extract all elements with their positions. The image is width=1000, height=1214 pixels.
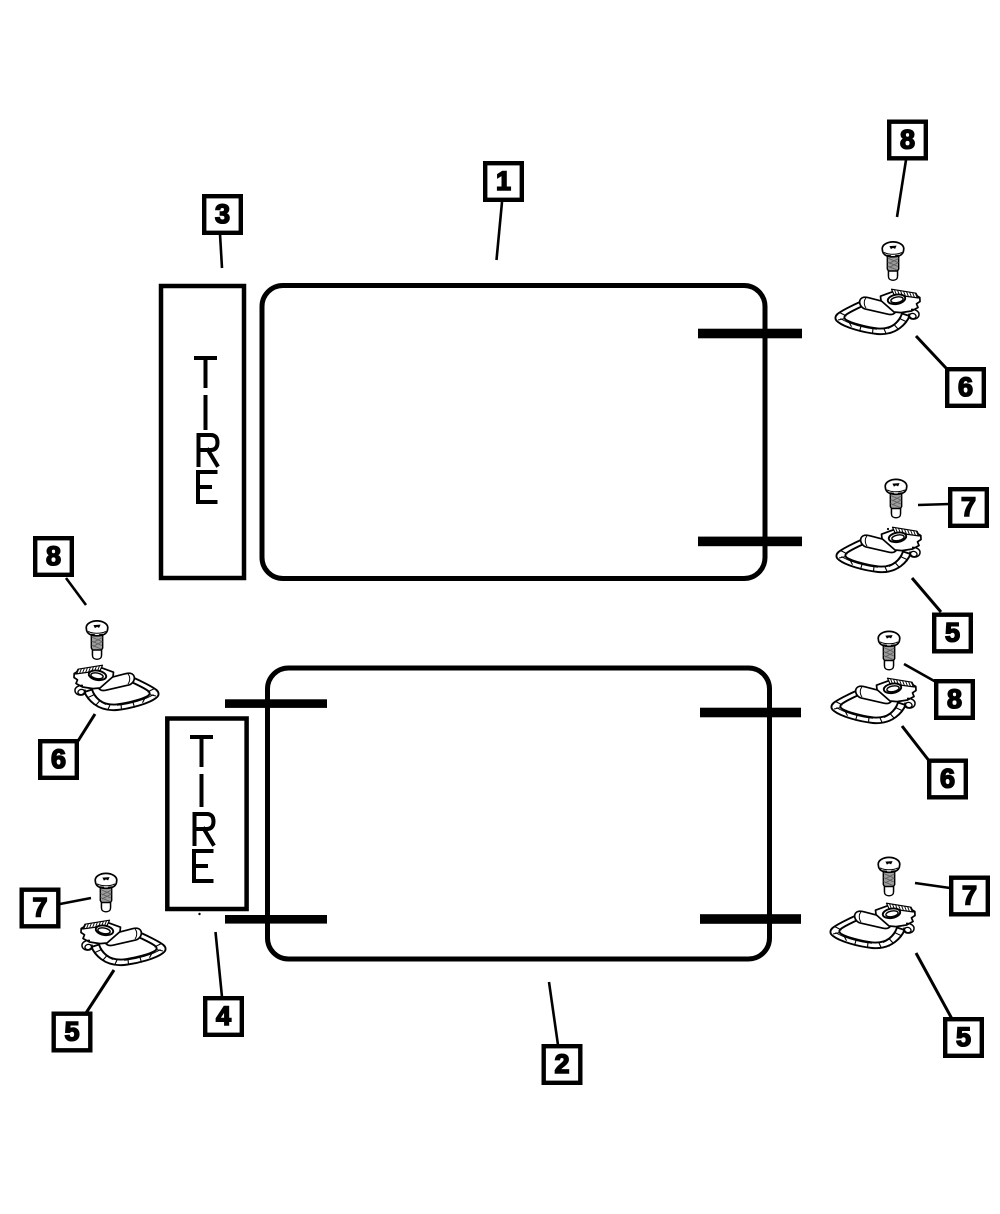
- svg-text:7: 7: [32, 892, 47, 922]
- svg-text:2: 2: [554, 1049, 569, 1079]
- callout 6 right-mid: [929, 761, 966, 798]
- leader line to callout 3: [220, 234, 222, 268]
- callout 7 bottom-right: [951, 878, 988, 915]
- speck above right hook 5: [887, 528, 889, 530]
- leader line to callout 6 left: [78, 714, 95, 741]
- leader line to callout 8 left: [66, 578, 86, 605]
- callout 6 left: [40, 741, 77, 778]
- tire label box 3: [161, 286, 244, 578]
- svg-text:1: 1: [496, 166, 511, 196]
- leader line to callout 8 right-mid: [904, 664, 936, 682]
- svg-text:8: 8: [947, 684, 962, 714]
- callout 8 left: [35, 538, 72, 575]
- leader line to callout 5 left: [86, 970, 114, 1013]
- tie-down hook 5 right: [836, 527, 921, 572]
- svg-text:7: 7: [961, 492, 976, 522]
- TIRE text (box 4): [192, 737, 214, 881]
- callout 8 right-mid: [936, 681, 973, 718]
- svg-text:6: 6: [958, 372, 973, 402]
- speck below bottom-right hook 5: [888, 944, 890, 946]
- leader line to callout 5 right: [912, 578, 941, 612]
- svg-text:3: 3: [215, 199, 230, 229]
- svg-text:8: 8: [900, 124, 915, 154]
- tie-down hook 6 right-mid: [831, 678, 916, 723]
- callout 4: [205, 998, 242, 1035]
- callout 2: [544, 1046, 581, 1083]
- svg-text:7: 7: [962, 880, 977, 910]
- leader line to callout 7 bottom-right: [915, 883, 950, 888]
- tick bar left-top of panel 2: [225, 699, 327, 708]
- leader line to callout 6 right-mid: [902, 726, 930, 762]
- panel 2 (bottom cover panel): [268, 668, 770, 959]
- screw 7 left: [95, 873, 117, 911]
- leader line to callout 4: [216, 932, 223, 997]
- tire label box 4: [167, 719, 246, 910]
- tie-down hook 5 bottom-right: [830, 903, 915, 948]
- screw 8 top-right: [882, 242, 904, 280]
- callout 5 bottom-right: [945, 1019, 982, 1056]
- svg-text:8: 8: [46, 541, 61, 571]
- tie-down hook 6 left (mirrored): [74, 665, 159, 710]
- tie-down hook 6 top-right: [835, 289, 920, 334]
- tie-down hook 5 left (mirrored): [81, 920, 166, 965]
- svg-text:6: 6: [940, 763, 955, 793]
- leader line to callout 2: [549, 982, 558, 1045]
- callout 5 left: [54, 1014, 91, 1051]
- svg-text:4: 4: [216, 1001, 231, 1031]
- callout 1: [485, 163, 522, 200]
- panel 1 (top cover panel): [262, 286, 765, 579]
- leader line to callout 1: [497, 202, 503, 260]
- svg-text:5: 5: [945, 617, 960, 647]
- callout 3: [204, 196, 241, 233]
- leader line to callout 7 right: [918, 504, 950, 505]
- callout 7 right: [950, 489, 987, 526]
- screw 7 right: [885, 479, 907, 517]
- screw 8 left: [86, 621, 108, 659]
- tick bar right-bottom of panel 1: [698, 537, 802, 547]
- tick bar right-top of panel 1: [698, 329, 802, 339]
- svg-text:5: 5: [64, 1016, 79, 1046]
- svg-text:6: 6: [51, 744, 66, 774]
- leader line to callout 7 left: [60, 898, 91, 904]
- tick bar right-top of panel 2: [700, 708, 801, 718]
- callout 5 right: [934, 615, 971, 652]
- callout 8 top-right: [889, 122, 926, 159]
- callout 7 left: [22, 890, 59, 927]
- tick bar left-bottom of panel 2: [225, 915, 327, 924]
- svg-text:5: 5: [956, 1022, 971, 1052]
- callout 6 top-right: [947, 369, 984, 406]
- speck near tire box 4: [198, 913, 200, 915]
- screw 8 right-mid: [878, 631, 900, 669]
- leader line to callout 6 top-right: [916, 336, 946, 368]
- screw 7 bottom-right: [878, 857, 900, 895]
- leader line to callout 8 top-right: [897, 160, 906, 217]
- tick bar right-bottom of panel 2: [700, 914, 801, 924]
- leader line to callout 5 bottom-right: [916, 953, 952, 1018]
- TIRE text (box 3): [196, 358, 218, 502]
